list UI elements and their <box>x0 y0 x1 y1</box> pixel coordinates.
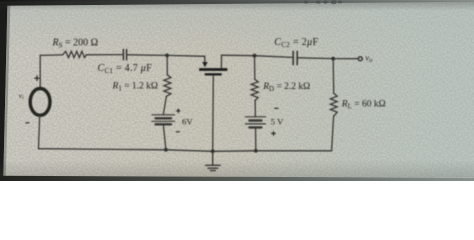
node junction ground <box>211 149 215 153</box>
node junction R1/gate <box>165 54 169 58</box>
wire RD branch top <box>254 56 256 80</box>
battery 5V <box>245 117 265 128</box>
label plus source <box>34 75 40 81</box>
wire top rail drain segment <box>222 55 293 57</box>
node junction RL top <box>331 57 335 61</box>
wire 6V battery to bottom rail <box>163 124 166 150</box>
wire CC2 to RL node <box>298 57 333 60</box>
wire RS to CC1 <box>86 54 122 56</box>
paper background <box>0 0 474 181</box>
node junction R1 bottom <box>164 148 168 152</box>
node junction RD top <box>253 54 257 58</box>
soft shadow above bottom edge <box>0 160 474 177</box>
svg-text:CC2 = 2μF: CC2 = 2μF <box>274 37 318 49</box>
wire top-left corner to source top <box>39 55 41 88</box>
svg-text:RS = 200 Ω: RS = 200 Ω <box>52 37 99 49</box>
wire drain lead <box>220 55 222 68</box>
wire node to output terminal <box>333 58 358 60</box>
label plus 5V <box>271 131 276 136</box>
wire source lead down <box>212 76 215 152</box>
wire RL branch top <box>332 59 335 94</box>
label minus 6V <box>176 131 180 132</box>
resistor R1 <box>164 75 171 97</box>
resistor RL <box>330 93 337 116</box>
wire RD to 5V battery <box>254 100 256 116</box>
capacitor CC2 <box>293 51 297 64</box>
dark photo edge top <box>0 0 474 6</box>
transistor gate arrow <box>202 62 208 67</box>
bottom rail <box>39 149 332 152</box>
wire top rail left <box>40 54 62 57</box>
source vi (circle) <box>30 89 50 116</box>
wire R1 to 6V battery <box>163 96 166 114</box>
capacitor CC1 <box>123 50 126 60</box>
transistor gate bar <box>199 68 227 71</box>
dark photo edge bottom <box>0 176 474 181</box>
svg-text:5 V: 5 V <box>271 117 284 127</box>
soft shadow under top edge <box>0 2 474 11</box>
node junction 5V bottom <box>254 149 258 153</box>
wire gate lead <box>167 55 205 62</box>
wire source bottom to bottom-left corner <box>39 115 40 148</box>
label minus 5V <box>274 108 278 109</box>
ground <box>206 151 221 170</box>
battery 6V <box>152 115 175 125</box>
output terminal vo <box>358 57 362 61</box>
wire CC1 to node <box>127 54 167 57</box>
resistor RS <box>62 51 86 57</box>
wire RL to bottom-right corner <box>332 116 334 151</box>
resistor RD <box>251 79 258 100</box>
label minus source <box>25 122 29 123</box>
svg-text:RL = 60 kΩ: RL = 60 kΩ <box>341 100 386 111</box>
label plus 6V <box>176 109 180 113</box>
svg-text:6V: 6V <box>182 117 193 127</box>
faint smudges top (cropped text from page above) <box>304 0 342 4</box>
transistor channel bar <box>205 73 222 75</box>
dark photo edge left <box>0 0 8 181</box>
wire R1 branch top <box>166 55 168 74</box>
wire 5V battery to bottom rail <box>255 127 257 150</box>
